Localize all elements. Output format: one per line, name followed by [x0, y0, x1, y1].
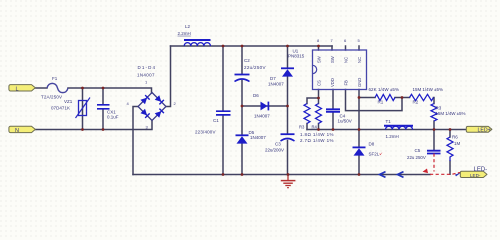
svg-text:FB: FB	[344, 80, 349, 86]
svg-text:LED-: LED-	[474, 167, 488, 173]
svg-text:CS: CS	[317, 80, 322, 86]
svg-text:T1: T1	[386, 119, 392, 124]
svg-text:5: 5	[358, 38, 361, 43]
svg-text:22u/250V: 22u/250V	[244, 65, 266, 70]
svg-text:L: L	[16, 86, 19, 92]
svg-text:1N4007: 1N4007	[137, 73, 155, 78]
svg-text:D1-D4: D1-D4	[138, 65, 156, 70]
svg-text:VZ1: VZ1	[64, 99, 73, 104]
svg-text:C5: C5	[415, 148, 421, 153]
svg-text:7: 7	[331, 38, 334, 43]
svg-text:2: 2	[174, 101, 177, 106]
svg-text:NC: NC	[344, 57, 349, 63]
svg-text:1N4007: 1N4007	[250, 135, 266, 140]
svg-text:SF2L: SF2L	[369, 151, 380, 156]
svg-text:15M 1/4W ±5%: 15M 1/4W ±5%	[413, 87, 444, 92]
svg-text:62K 1/4W ±5%: 62K 1/4W ±5%	[369, 87, 400, 92]
svg-text:R1: R1	[378, 99, 384, 104]
svg-text:N: N	[15, 128, 19, 134]
svg-text:0.1uF: 0.1uF	[107, 114, 119, 119]
svg-text:LED+: LED+	[478, 127, 491, 133]
svg-text:07D471K: 07D471K	[51, 106, 70, 111]
svg-text:F1: F1	[52, 76, 58, 81]
svg-text:VDD: VDD	[330, 78, 335, 87]
svg-text:R3: R3	[299, 124, 305, 129]
svg-text:1.8Ω 1/4W 1%: 1.8Ω 1/4W 1%	[300, 132, 334, 137]
svg-text:GND: GND	[357, 78, 362, 87]
svg-text:4: 4	[127, 101, 130, 106]
svg-text:6: 6	[344, 38, 347, 43]
svg-text:15M 1/4W ±5%: 15M 1/4W ±5%	[436, 111, 466, 116]
svg-text:C3: C3	[275, 142, 281, 147]
svg-text:223/400V: 223/400V	[195, 130, 216, 135]
svg-text:NC: NC	[357, 57, 362, 63]
svg-text:1N4007: 1N4007	[268, 82, 284, 87]
svg-text:2.2mH: 2.2mH	[178, 31, 191, 36]
svg-text:2.7Ω 1/4W 1%: 2.7Ω 1/4W 1%	[300, 138, 334, 143]
svg-text:1u/50V: 1u/50V	[338, 119, 352, 124]
svg-text:C1: C1	[213, 118, 219, 123]
svg-text:1.2mH: 1.2mH	[386, 134, 399, 139]
svg-text:D6: D6	[253, 93, 259, 98]
svg-text:22u 250V: 22u 250V	[407, 155, 426, 160]
svg-text:R2: R2	[413, 99, 419, 104]
svg-text:SW: SW	[317, 56, 322, 63]
svg-text:D7: D7	[270, 76, 276, 81]
svg-text:R4: R4	[312, 124, 318, 129]
svg-text:SW: SW	[330, 56, 335, 63]
svg-text:C2: C2	[244, 58, 250, 63]
svg-text:T2A/250V: T2A/250V	[41, 95, 62, 100]
svg-text:L2: L2	[185, 24, 191, 29]
svg-text:22u/200V: 22u/200V	[265, 147, 284, 152]
svg-text:1N4007: 1N4007	[254, 114, 270, 119]
svg-text:R6: R6	[452, 134, 458, 139]
svg-text:LED-: LED-	[470, 173, 481, 178]
svg-text:8: 8	[317, 38, 320, 43]
svg-text:R3: R3	[436, 105, 442, 110]
svg-text:PN8315: PN8315	[288, 54, 305, 59]
svg-text:D8: D8	[369, 141, 375, 146]
svg-text:1M: 1M	[454, 141, 461, 146]
svg-text:1: 1	[145, 80, 148, 85]
